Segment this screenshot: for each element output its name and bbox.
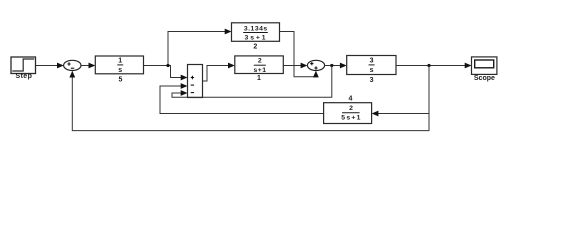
wire Sum1 to TF1 [81,63,95,69]
wire TF3 to Scope [396,63,472,69]
svg-text:3: 3 [370,77,374,84]
wire branch up to top block [168,29,232,66]
svg-text:3s+1: 3s+1 [245,34,268,41]
wire Sum2 output to TF2 [203,63,235,81]
svg-text:1: 1 [118,58,122,65]
node junction before Scope [427,64,430,67]
transfer function block 2/(s+1) [235,56,283,74]
node junction on TF1 output [166,64,169,67]
transfer function block 3/s [347,56,396,75]
svg-text:3: 3 [370,58,374,65]
svg-text:4: 4 [349,96,353,103]
svg-text:5: 5 [118,77,122,84]
transfer function block 2/(5s+1) [324,103,372,124]
Scope block [472,57,497,75]
wire Step to Sum1 [36,63,64,69]
svg-text:s+1: s+1 [253,67,266,74]
svg-text:s: s [370,67,374,74]
svg-text:2: 2 [253,43,257,50]
sum junction Sum1 [64,60,81,70]
wire TF1 output with branch [144,66,188,81]
sum block Sum2 (rectangular, + - -) [188,65,203,98]
svg-text:Step: Step [16,73,33,80]
node junction after Sum3 [330,64,333,67]
wire outer feedback loop to Sum1 [69,66,429,131]
transfer function block 1/s [95,56,143,74]
svg-text:5s+1: 5s+1 [341,115,362,122]
svg-text:Scope: Scope [474,75,495,82]
svg-text:3.134s: 3.134s [244,26,268,33]
svg-text:s: s [118,67,122,74]
wire inner feedback to Sum2 third input [172,66,332,98]
Step source block [11,57,36,74]
svg-text:2: 2 [349,105,353,112]
wire top block to Sum3 bottom input [280,32,319,78]
wire tap into TF4 (right input, flipped block) [372,111,429,117]
sum junction Sum3 [307,60,324,70]
wire TF4 output to Sum2 second input [160,83,324,113]
svg-text:1: 1 [257,75,261,82]
transfer function block 3.134s/(3s+1) [232,23,280,42]
wire TF2 to Sum3 [283,63,307,69]
wire Sum3 to TF3 [325,63,347,69]
svg-text:2: 2 [258,58,262,65]
